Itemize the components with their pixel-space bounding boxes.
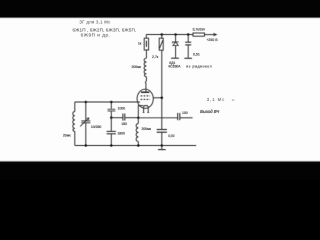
- svg-text:3,7к/2вт: 3,7к/2вт: [192, 28, 205, 32]
- wire: tank left branch: [74, 102, 76, 112]
- svg-text:1к: 1к: [138, 42, 142, 46]
- tube V1 envelope: [137, 89, 153, 108]
- svg-text:180: 180: [121, 122, 127, 126]
- letterbox bar top: [0, 0, 320, 18]
- svg-text:0,01: 0,01: [168, 134, 175, 138]
- wire: output lead: [180, 117, 193, 119]
- node: C1 / bottom rail: [85, 144, 88, 147]
- node: rail / zener: [174, 33, 177, 36]
- capacitor C3 1800: [110, 118, 112, 132]
- node: cathode junction: [137, 117, 140, 120]
- svg-text:0,51: 0,51: [193, 53, 200, 57]
- wire: +250V supply rail: [146, 34, 193, 36]
- tube V1 heater: [144, 105, 149, 112]
- svg-text:3,1 Мс: 3,1 Мс: [207, 97, 225, 102]
- wire: choke to tube anode: [145, 77, 146, 92]
- node: rail / R2: [161, 33, 164, 36]
- svg-text:6Ж1П , 6Ж2П, 6Ж3П, 6Ж5П,: 6Ж1П , 6Ж2П, 6Ж3П, 6Ж5П,: [72, 27, 136, 32]
- svg-text:100: 100: [182, 111, 188, 115]
- letterbox bar bottom: [0, 162, 320, 181]
- svg-text:20мк: 20мк: [63, 134, 71, 138]
- svg-text:ЗГ для 3,1 Мс: ЗГ для 3,1 Мс: [79, 19, 111, 24]
- ground under zener: [171, 57, 179, 59]
- wire: C4 to cathode node: [125, 117, 138, 119]
- ground below bottom rail: [161, 146, 163, 150]
- wire: rail to supply arrow: [205, 34, 216, 36]
- variable capacitor C1 10/280: [85, 102, 87, 121]
- capacitor C7 100 output: [177, 113, 179, 120]
- inductor Dr2 200mk cathode choke: [137, 118, 139, 124]
- node: bypass / bottom rail: [161, 144, 164, 147]
- tube V1 grid 2: [141, 98, 150, 100]
- node: grid line / C1: [85, 101, 88, 104]
- ground under C5: [184, 57, 192, 59]
- capacitor C4 180: [122, 114, 124, 121]
- svg-text:1800: 1800: [117, 132, 125, 136]
- svg-text:200мк: 200мк: [142, 127, 152, 131]
- tube V1 grid 1: [141, 95, 150, 97]
- tube V1 cathode and lead: [138, 106, 143, 118]
- svg-text:200мк: 200мк: [132, 65, 142, 69]
- node: C2 / C3 / C4 junction: [110, 116, 113, 119]
- svg-text:10/280: 10/280: [91, 125, 101, 129]
- speck artifact: [232, 99, 234, 101]
- resistor R4 3,7k/2vt: [193, 33, 205, 36]
- svg-text:из радиокол: из радиокол: [186, 64, 212, 68]
- wire: screen lead: [153, 97, 162, 99]
- svg-text:+250 В: +250 В: [206, 38, 218, 42]
- wire: cathode line right: [138, 117, 177, 119]
- wire: cathode line left: [111, 117, 122, 119]
- wire: R1 to anode choke: [145, 50, 147, 58]
- capacitor C5 0,51: [187, 35, 189, 43]
- capacitor C2 1000: [110, 102, 112, 109]
- svg-text:КС630А: КС630А: [169, 65, 182, 69]
- wire: tank coil to bottom rail: [74, 131, 76, 145]
- node: C3 / bottom rail: [110, 144, 113, 147]
- tube V1 anode: [141, 91, 149, 93]
- svg-text:6Ж9П и др.: 6Ж9П и др.: [81, 33, 111, 38]
- node: Dr2 / bottom rail: [137, 144, 140, 147]
- wire: bottom common rail: [75, 145, 196, 147]
- zener diode KD1 KS630A: [175, 35, 177, 43]
- node: screen lead / screen line: [161, 97, 164, 100]
- node: grid line / C2: [110, 101, 113, 104]
- svg-text:Выход ВЧ: Выход ВЧ: [200, 109, 219, 114]
- inductor Dr1 200mk anode choke: [144, 58, 146, 76]
- resistor R1 1k: [145, 35, 147, 39]
- node: rail / C5: [187, 33, 190, 36]
- svg-text:2,7к: 2,7к: [152, 55, 159, 59]
- inductor L1 20mk tank coil: [73, 112, 75, 132]
- wire: screen grid line: [161, 50, 163, 129]
- terminal arrow +250 V: [214, 33, 217, 36]
- resistor R2 2,7k: [161, 35, 163, 39]
- svg-text:1000: 1000: [118, 107, 126, 111]
- wire: grid line: [75, 101, 140, 103]
- capacitor C6 0,01 screen bypass: [157, 129, 167, 131]
